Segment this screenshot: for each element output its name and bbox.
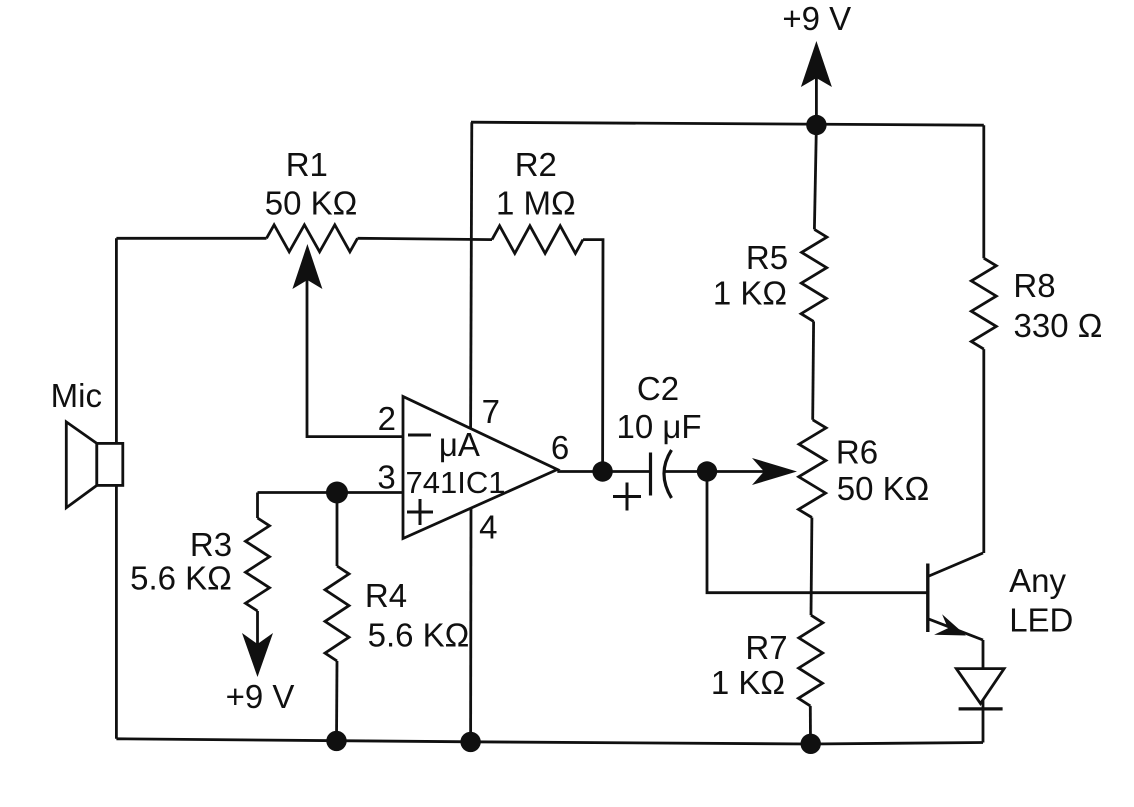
svg-text:R5: R5 (746, 239, 788, 276)
svg-text:R3: R3 (190, 526, 232, 563)
svg-text:10 μF: 10 μF (616, 408, 701, 445)
svg-text:R8: R8 (1013, 267, 1055, 304)
svg-text:Any: Any (1009, 562, 1066, 599)
svg-text:5.6 KΩ: 5.6 KΩ (130, 560, 232, 597)
svg-text:50 KΩ: 50 KΩ (265, 185, 358, 222)
svg-text:5.6 KΩ: 5.6 KΩ (368, 617, 470, 654)
svg-text:R7: R7 (745, 629, 787, 666)
svg-text:1 KΩ: 1 KΩ (711, 664, 785, 701)
svg-text:741IC1: 741IC1 (406, 465, 506, 500)
svg-text:R6: R6 (836, 434, 878, 471)
svg-text:330 Ω: 330 Ω (1014, 307, 1103, 344)
svg-text:R2: R2 (515, 146, 557, 183)
svg-text:7: 7 (482, 393, 500, 430)
svg-text:1 MΩ: 1 MΩ (496, 184, 576, 221)
svg-text:2: 2 (378, 400, 396, 437)
svg-text:C2: C2 (637, 370, 679, 407)
svg-text:4: 4 (479, 509, 497, 546)
svg-text:+9 V: +9 V (782, 0, 851, 37)
svg-text:1 KΩ: 1 KΩ (713, 275, 787, 312)
svg-text:50 KΩ: 50 KΩ (837, 470, 930, 507)
svg-text:R1: R1 (286, 146, 328, 183)
svg-text:+9 V: +9 V (226, 678, 295, 715)
svg-text:μA: μA (439, 426, 480, 463)
svg-text:3: 3 (377, 459, 395, 496)
svg-text:6: 6 (551, 429, 569, 466)
svg-text:Mic: Mic (51, 377, 102, 414)
svg-text:R4: R4 (365, 577, 407, 614)
svg-text:LED: LED (1009, 602, 1073, 639)
